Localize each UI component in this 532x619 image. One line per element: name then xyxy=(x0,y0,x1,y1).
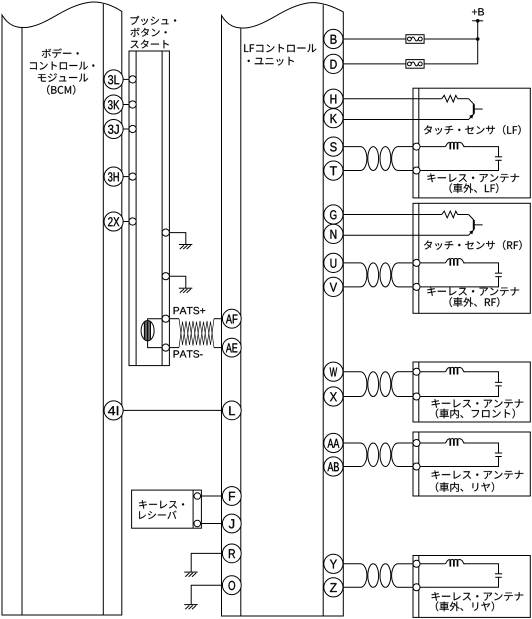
ground G1 xyxy=(179,245,193,250)
terminal PATS+ on push-button-start xyxy=(162,315,169,322)
pin J xyxy=(222,514,241,533)
wire coil L1 bottom to terminal PATS- xyxy=(148,341,163,348)
wire pin N to transistor Q-A2 xyxy=(343,234,469,236)
terminal on push-button-start for 3J xyxy=(129,125,136,132)
A3 label line 1 xyxy=(432,399,524,408)
BCM label line 3 xyxy=(38,73,88,82)
terminal on push-button-start for 2X xyxy=(129,218,136,225)
PATS zigzag coupling winding lower xyxy=(179,322,214,348)
transistor Q-A2 xyxy=(469,215,483,236)
pin AE xyxy=(222,338,241,357)
wire twisted-pair to terminal Y xyxy=(398,563,413,565)
antenna coil L-A5 xyxy=(445,559,465,566)
wire BCM 3K to push-button-start xyxy=(123,104,130,106)
pin T xyxy=(324,161,343,180)
resistor R-A1 xyxy=(442,95,458,102)
A4 label line 1 xyxy=(432,470,524,479)
wire twisted-pair to terminal AB xyxy=(398,466,413,468)
wire twisted-pair to terminal AA xyxy=(398,442,413,444)
wire antenna A3 loop right xyxy=(463,372,498,383)
terminal antenna A1 bottom xyxy=(413,167,420,174)
push-button-start label line 1 xyxy=(131,16,177,25)
capacitor C-A3 xyxy=(495,382,502,386)
LF-control-unit label line 2 xyxy=(248,57,294,66)
push-button-start label line 2 xyxy=(131,28,167,37)
wire pin G to resistor xyxy=(343,214,442,216)
pin B xyxy=(324,29,343,48)
BCM inner connector-strip line right xyxy=(102,4,104,615)
pin F xyxy=(222,487,241,506)
wire pin S twisted-pair stub xyxy=(343,146,361,148)
twisted-pair U/V xyxy=(361,263,399,287)
push-button-start inner line left xyxy=(135,51,137,366)
power +B terminal tick xyxy=(472,20,483,22)
junction node +B / fuse B xyxy=(476,37,480,41)
wire twisted-pair to terminal W xyxy=(398,371,413,373)
ground G3 xyxy=(184,572,198,577)
wire pin Y twisted-pair stub xyxy=(343,563,361,565)
A2 touch-sensor label xyxy=(424,240,522,250)
wire antenna A3 loop top xyxy=(420,371,445,373)
twisted-pair S/T xyxy=(361,147,399,171)
wire PATS+ stub left xyxy=(169,318,179,320)
LF-control-unit inner connector-strip line left xyxy=(240,28,242,616)
A1 keyless-antenna label line 1 xyxy=(427,174,519,183)
twisted-pair AA/AB xyxy=(361,443,399,467)
push-button-start inner line right xyxy=(161,51,163,366)
pin U xyxy=(324,253,343,272)
wire pin R to ground xyxy=(191,553,222,572)
A2 keyless-antenna label line 2 xyxy=(450,297,500,307)
module U1 LF-control-unit outline xyxy=(222,3,344,616)
wire antenna A3 loop bottom xyxy=(420,386,499,397)
PATS zigzag coupling winding upper xyxy=(179,319,214,345)
pin O xyxy=(222,576,241,595)
keyless receiver label line 2 xyxy=(139,511,176,519)
terminal on push-button-start for 3H xyxy=(129,173,136,180)
pin H xyxy=(324,89,343,108)
wire BCM 3H to push-button-start xyxy=(123,176,130,178)
wire antenna A5 loop bottom xyxy=(420,577,499,587)
wire antenna A4 loop right xyxy=(463,443,498,453)
pin R xyxy=(222,544,241,563)
wire BCM 2X to push-button-start xyxy=(123,221,130,223)
pin W xyxy=(324,362,343,381)
power +B label xyxy=(472,8,484,15)
capacitor C-A2 xyxy=(495,273,502,277)
terminal on push-button-start for 3K xyxy=(129,101,136,108)
A1 touch-sensor label xyxy=(424,125,521,135)
wire twisted-pair to terminal S xyxy=(398,146,413,148)
ground G4 xyxy=(184,605,198,610)
A4 inner line left xyxy=(418,432,420,496)
antenna coil L-A1 xyxy=(445,142,465,149)
wire pin U twisted-pair stub xyxy=(343,262,361,264)
wire pin O to ground xyxy=(191,585,222,604)
wire pin T twisted-pair stub xyxy=(343,170,361,172)
wire PATS+ stub to pin AF xyxy=(214,318,223,320)
terminal antenna A2 bottom xyxy=(413,283,420,290)
transistor Q-A1 xyxy=(469,99,483,120)
pin K xyxy=(324,109,343,128)
pin 3H xyxy=(104,167,123,186)
module A5 keyless-antenna box outline xyxy=(413,556,530,618)
keyless receiver label line 1 xyxy=(139,500,184,508)
pin 2X xyxy=(104,212,123,231)
wire BCM 4I to LF-control-unit L xyxy=(123,409,222,411)
wire antenna A1 loop right xyxy=(463,147,498,157)
wire fuse F2 to +B xyxy=(424,63,478,65)
label PATS- xyxy=(174,350,203,357)
A5 label line 1 xyxy=(432,592,524,601)
wire fuse F1 to +B xyxy=(424,38,478,40)
module SW1 push-button-start outline xyxy=(129,51,169,366)
wire pin W twisted-pair stub xyxy=(343,371,361,373)
label PATS+ xyxy=(174,307,206,314)
wire pin Z twisted-pair stub xyxy=(343,586,361,588)
pin N xyxy=(324,224,343,243)
wire antenna A5 loop top xyxy=(420,563,445,565)
immobilizer coil L1 (key slot antenna) xyxy=(141,321,154,341)
wire resistor to transistor Q-A1 xyxy=(458,98,469,100)
module A2 touch-sensor / keyless-antenna box outline xyxy=(413,203,530,313)
A5 inner line left xyxy=(418,556,420,618)
terminal antenna A3 bottom xyxy=(413,393,420,400)
wire +B vertical feed xyxy=(477,21,479,64)
wire twisted-pair to terminal V xyxy=(398,286,413,288)
pin 3L xyxy=(104,70,123,89)
terminal antenna A4 bottom xyxy=(413,463,420,470)
antenna coil L-A3 xyxy=(445,367,465,374)
wire push-button-start ground 2 xyxy=(169,276,185,288)
BCM inner connector-strip line left xyxy=(21,28,23,615)
terminal PATS- on push-button-start xyxy=(162,344,169,351)
capacitor C-A4 xyxy=(495,453,502,457)
wire pin B to fuse F1 xyxy=(343,38,406,40)
A4 label line 2 xyxy=(436,482,494,492)
wire pin H to resistor xyxy=(343,98,442,100)
wire receiver to pin F xyxy=(201,495,223,497)
pin Y xyxy=(324,554,343,573)
pin V xyxy=(324,277,343,296)
terminal antenna A5 bottom xyxy=(413,584,420,591)
wire antenna A4 loop bottom xyxy=(420,457,499,467)
BCM label line 4 xyxy=(47,85,75,95)
A5 label line 2 xyxy=(436,601,494,611)
terminal on push-button-start for 3L xyxy=(129,76,136,83)
A2 inner line left xyxy=(418,203,420,313)
terminal push-button-start ground 1 xyxy=(162,229,169,236)
wire antenna A2 loop right xyxy=(463,263,498,273)
wire pin AA twisted-pair stub xyxy=(343,442,361,444)
terminal receiver out 1 xyxy=(194,493,201,500)
twisted-pair W/X xyxy=(361,372,399,397)
pin Z xyxy=(324,578,343,597)
pin AB xyxy=(324,457,343,476)
module A3 keyless-antenna box outline xyxy=(413,362,530,422)
BCM label line 2 xyxy=(30,62,94,70)
pin AA xyxy=(324,433,343,452)
A3 label line 2 xyxy=(436,409,515,419)
push-button-start label line 3 xyxy=(131,40,169,49)
terminal antenna A3 top xyxy=(413,368,420,375)
power +B terminal dot xyxy=(476,19,480,23)
twisted-pair Y/Z xyxy=(361,564,399,588)
terminal receiver out 2 xyxy=(194,520,201,527)
A2 keyless-antenna label line 1 xyxy=(427,287,519,296)
terminal antenna A5 top xyxy=(413,560,420,567)
wire twisted-pair to terminal X xyxy=(398,396,413,398)
wire antenna A5 loop right xyxy=(463,564,498,574)
fuse F2 xyxy=(406,60,424,69)
wire receiver to pin J xyxy=(201,523,223,525)
wire pin V twisted-pair stub xyxy=(343,286,361,288)
wire resistor to transistor Q-A2 xyxy=(458,214,469,216)
terminal antenna A2 top xyxy=(413,259,420,266)
module A4 keyless-antenna box outline xyxy=(413,432,530,496)
pin 3J xyxy=(104,119,123,138)
wire pin X twisted-pair stub xyxy=(343,396,361,398)
A1 keyless-antenna label line 2 xyxy=(450,183,499,193)
wire BCM 3L to push-button-start xyxy=(123,78,130,80)
pin 3K xyxy=(104,95,123,114)
wire BCM 3J to push-button-start xyxy=(123,128,130,130)
wire antenna A2 loop top xyxy=(420,262,445,264)
A1 inner line left xyxy=(418,88,420,198)
LF-control-unit label line 1 xyxy=(244,44,316,52)
terminal push-button-start ground 2 xyxy=(162,273,169,280)
terminal antenna A4 top xyxy=(413,440,420,447)
wire twisted-pair to terminal T xyxy=(398,170,413,172)
module U2 body-control-module (BCM) outline xyxy=(2,2,122,615)
wire antenna A1 loop top xyxy=(420,146,445,148)
terminal antenna A1 top xyxy=(413,143,420,150)
wire twisted-pair to terminal Z xyxy=(398,586,413,588)
wire twisted-pair to terminal U xyxy=(398,262,413,264)
pin 4I xyxy=(104,401,123,420)
wire antenna A2 loop bottom xyxy=(420,277,499,287)
wire pin AB twisted-pair stub xyxy=(343,466,361,468)
pin AF xyxy=(222,309,241,328)
wire PATS- stub to pin AE xyxy=(214,347,223,349)
antenna coil L-A2 xyxy=(445,259,465,266)
wire pin K to transistor Q-A1 xyxy=(343,119,469,121)
ground G2 xyxy=(179,288,193,293)
LF-control-unit inner connector-strip line right xyxy=(322,5,324,616)
module A1 touch-sensor / keyless-antenna box outline xyxy=(413,88,530,198)
pin S xyxy=(324,137,343,156)
fuse F1 xyxy=(406,35,424,44)
wire antenna A1 loop bottom xyxy=(420,160,499,170)
pin D xyxy=(324,54,343,73)
antenna coil L-A4 xyxy=(445,439,465,446)
resistor R-A2 xyxy=(442,211,458,218)
wire PATS- stub left xyxy=(169,347,179,349)
module U3 keyless receiver outline xyxy=(132,490,202,528)
pin L xyxy=(222,401,241,420)
pin X xyxy=(324,387,343,406)
wire push-button-start ground 1 xyxy=(169,233,185,245)
wire pin D to fuse F2 xyxy=(343,63,406,65)
capacitor C-A5 xyxy=(495,574,502,578)
wire coil L1 top to terminal PATS+ xyxy=(148,319,163,321)
A3 inner line left xyxy=(418,362,420,422)
wire antenna A4 loop top xyxy=(420,442,445,444)
pin G xyxy=(324,205,343,224)
BCM label line 1 xyxy=(42,48,79,58)
capacitor C-A1 xyxy=(495,157,502,161)
keyless receiver inner line right xyxy=(192,490,194,528)
